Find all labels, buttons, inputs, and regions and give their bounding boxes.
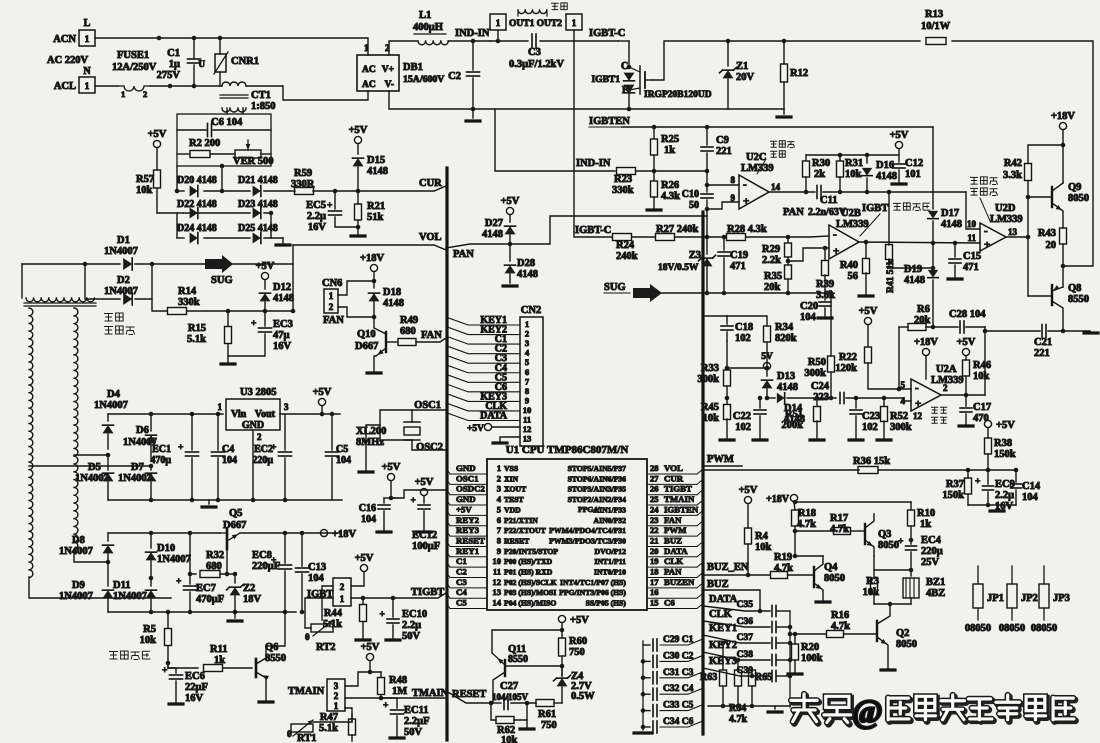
svg-text:ACN: ACN <box>53 34 76 45</box>
svg-text:OUT1: OUT1 <box>509 19 535 29</box>
power +5V logic <box>387 473 394 480</box>
svg-text:D4: D4 <box>107 389 121 400</box>
IC DB1 bridge rectifier <box>357 55 399 91</box>
svg-text:+18V: +18V <box>914 337 938 348</box>
svg-text:OSDC2: OSDC2 <box>456 484 485 494</box>
svg-text:U2C: U2C <box>746 152 766 163</box>
svg-text:BUZ: BUZ <box>707 579 729 590</box>
svg-text:3.3k: 3.3k <box>1003 170 1022 181</box>
svg-text:IND-IN: IND-IN <box>455 28 490 39</box>
svg-text:680: 680 <box>400 326 416 337</box>
svg-text:U2B: U2B <box>841 208 861 219</box>
svg-text:14: 14 <box>771 182 781 192</box>
wire U2C output <box>769 191 815 193</box>
wire c18 r34 join <box>726 341 728 368</box>
svg-text:102: 102 <box>735 422 751 433</box>
svg-text:C9: C9 <box>716 135 729 146</box>
svg-text:1: 1 <box>85 34 90 44</box>
power +5V r38 <box>984 420 991 427</box>
svg-text:C19: C19 <box>730 250 748 261</box>
wire u2a out <box>941 394 985 396</box>
svg-text:25V: 25V <box>921 557 940 568</box>
wire key resistor rail <box>708 705 790 707</box>
svg-text:REY1: REY1 <box>456 546 479 556</box>
svg-text:23: 23 <box>650 515 659 525</box>
svg-text:C24: C24 <box>811 381 830 392</box>
svg-text:C33 C5: C33 C5 <box>663 701 694 711</box>
capacitor C34 <box>641 725 646 730</box>
svg-text:Vin: Vin <box>231 409 247 420</box>
ground under EC5 R21 <box>357 227 359 234</box>
svg-text:22: 22 <box>650 525 659 535</box>
svg-text:10k: 10k <box>973 371 990 382</box>
svg-text:AC: AC <box>362 80 376 90</box>
svg-text:104/105V: 104/105V <box>492 692 529 702</box>
svg-text:10k: 10k <box>845 169 862 180</box>
svg-text:1: 1 <box>525 319 529 329</box>
node SUG arrow left <box>152 263 205 265</box>
svg-text:C16: C16 <box>359 503 376 514</box>
svg-text:16: 16 <box>650 587 659 597</box>
svg-text:104: 104 <box>800 312 817 323</box>
svg-text:+5V: +5V <box>355 553 374 564</box>
svg-text:θ: θ <box>305 632 310 642</box>
svg-text:200k: 200k <box>781 420 803 431</box>
svg-text:100μF: 100μF <box>412 541 440 552</box>
svg-text:AC 220V: AC 220V <box>47 55 89 66</box>
svg-text:1μ: 1μ <box>169 59 180 70</box>
svg-text:4148: 4148 <box>777 382 798 393</box>
svg-text:Z1: Z1 <box>736 61 748 72</box>
svg-text:+: + <box>411 496 416 506</box>
svg-text:+: + <box>271 556 276 566</box>
svg-text:4.7k: 4.7k <box>729 714 748 725</box>
svg-text:1N4007: 1N4007 <box>118 473 152 484</box>
svg-text:D16: D16 <box>876 160 894 171</box>
svg-text:+: + <box>975 477 980 487</box>
svg-text:0.5W: 0.5W <box>571 691 595 702</box>
svg-text:12: 12 <box>913 411 923 421</box>
svg-text:2.2μF: 2.2μF <box>404 716 430 727</box>
svg-text:R45: R45 <box>701 402 719 413</box>
svg-text:8550: 8550 <box>508 654 528 665</box>
ground DC- <box>472 109 474 118</box>
svg-text:D21 4148: D21 4148 <box>238 175 278 186</box>
svg-text:1N4007: 1N4007 <box>59 546 93 557</box>
svg-text:C20: C20 <box>800 301 818 312</box>
svg-text:R43: R43 <box>1038 228 1056 239</box>
svg-text:+: + <box>271 443 276 453</box>
svg-text:+5V: +5V <box>256 261 275 272</box>
svg-text:10k: 10k <box>755 542 772 553</box>
svg-text:R63: R63 <box>700 672 717 683</box>
svg-text:RT1: RT1 <box>297 733 316 743</box>
svg-text:Q3: Q3 <box>878 529 891 540</box>
svg-text:20k: 20k <box>914 315 931 326</box>
svg-text:LM339: LM339 <box>990 214 1023 225</box>
svg-text:2: 2 <box>497 473 501 483</box>
svg-text:R41 51k: R41 51k <box>886 259 896 293</box>
svg-text:2.2k: 2.2k <box>762 255 781 266</box>
svg-text:VDD: VDD <box>504 505 521 514</box>
svg-text:SUG: SUG <box>604 282 626 293</box>
svg-text:+18V: +18V <box>332 529 356 540</box>
svg-text:C1: C1 <box>167 48 180 59</box>
svg-text:FAN: FAN <box>664 515 682 525</box>
svg-text:471: 471 <box>963 262 979 273</box>
svg-text:LM339: LM339 <box>836 219 869 230</box>
svg-text:OUT2: OUT2 <box>537 19 563 29</box>
svg-text:DB1: DB1 <box>403 62 423 73</box>
ground gate clamp <box>783 109 785 114</box>
svg-text:1k: 1k <box>664 145 675 156</box>
svg-text:C37: C37 <box>737 633 754 643</box>
svg-text:R38: R38 <box>994 438 1012 449</box>
svg-text:D5: D5 <box>88 462 101 473</box>
svg-text:2: 2 <box>329 302 334 312</box>
svg-text:Q4: Q4 <box>824 562 838 573</box>
svg-text:IGBTEN: IGBTEN <box>664 504 699 514</box>
svg-text:+18V: +18V <box>766 494 790 505</box>
wire ACL net <box>95 85 118 87</box>
svg-text:120k: 120k <box>835 363 857 374</box>
svg-text:R12: R12 <box>790 68 808 79</box>
svg-text:XL200: XL200 <box>356 426 386 437</box>
connector ACL terminal <box>79 77 95 93</box>
svg-text:INT0/P10: INT0/P10 <box>594 568 626 577</box>
svg-text:R32: R32 <box>206 550 224 561</box>
wire q11 feed <box>492 630 562 653</box>
ground under diode matrix <box>282 238 284 243</box>
svg-text:CT1: CT1 <box>251 90 271 101</box>
svg-text:L: L <box>84 18 91 29</box>
svg-text:102: 102 <box>735 333 751 344</box>
wire tmain +5v <box>370 661 381 672</box>
svg-text:+: + <box>380 610 385 620</box>
svg-text:10k: 10k <box>703 413 720 424</box>
svg-text:KEY1: KEY1 <box>709 623 737 634</box>
svg-text:50: 50 <box>689 200 699 211</box>
svg-text:R34: R34 <box>775 322 794 333</box>
svg-text:R22: R22 <box>839 352 857 363</box>
svg-text:AC: AC <box>362 65 376 75</box>
svg-text:EC10: EC10 <box>402 609 427 620</box>
svg-text:C10: C10 <box>682 189 699 200</box>
power +5V CN2 pin12 <box>484 423 491 430</box>
wire CN6 pin1 <box>338 281 374 295</box>
svg-text:+: + <box>383 701 388 711</box>
svg-text:+5V: +5V <box>148 129 167 140</box>
power +18V drive <box>1059 122 1066 129</box>
svg-text:3: 3 <box>284 402 289 412</box>
svg-text:P02 (HS)/SCLK: P02 (HS)/SCLK <box>504 578 557 587</box>
svg-text:11: 11 <box>523 415 531 425</box>
svg-text:+5V: +5V <box>957 337 976 348</box>
svg-text:R48: R48 <box>389 675 407 686</box>
label 驱动脉宽调整 <box>970 177 978 184</box>
svg-text:4BZ: 4BZ <box>926 588 945 599</box>
svg-text:56: 56 <box>848 271 859 282</box>
svg-text:4: 4 <box>525 348 530 358</box>
svg-text:R49: R49 <box>400 315 418 326</box>
svg-text:R37: R37 <box>946 479 964 490</box>
svg-text:D667: D667 <box>355 341 378 352</box>
wire PAN net <box>446 216 707 248</box>
connector OUT1 <box>490 14 506 30</box>
svg-text:R26: R26 <box>661 180 679 191</box>
svg-text:C11: C11 <box>820 195 838 206</box>
svg-text:JP1: JP1 <box>987 593 1004 604</box>
svg-text:D9: D9 <box>72 580 85 591</box>
svg-text:R46: R46 <box>973 360 991 371</box>
svg-text:1: 1 <box>218 402 223 412</box>
diode D15 <box>354 136 361 143</box>
svg-text:R21: R21 <box>367 201 385 212</box>
svg-text:6: 6 <box>525 367 530 377</box>
svg-text:50V: 50V <box>404 727 423 738</box>
svg-text:VOL: VOL <box>664 463 683 473</box>
svg-text:DATA: DATA <box>709 594 738 605</box>
svg-text:C6: C6 <box>664 598 675 608</box>
svg-text:R29: R29 <box>762 244 780 255</box>
svg-text:JP3: JP3 <box>1053 593 1070 604</box>
svg-text:4148: 4148 <box>367 166 388 177</box>
svg-text:11: 11 <box>493 567 501 577</box>
svg-text:300k: 300k <box>890 422 912 433</box>
svg-text:L1: L1 <box>419 10 431 21</box>
svg-text:470μ: 470μ <box>150 455 171 466</box>
svg-text:OSC1: OSC1 <box>414 400 441 411</box>
svg-text:51k: 51k <box>367 212 384 223</box>
svg-text:3: 3 <box>497 484 501 494</box>
svg-text:R11: R11 <box>210 644 228 655</box>
wire C29-C34 ground spine <box>642 641 644 730</box>
svg-text:1: 1 <box>121 89 125 99</box>
svg-text:2: 2 <box>143 89 147 99</box>
svg-text:1: 1 <box>572 18 577 28</box>
svg-text:PPG/INT3/P06 (HS): PPG/INT3/P06 (HS) <box>559 588 626 597</box>
svg-text:GND: GND <box>456 463 476 473</box>
svg-text:OSC1: OSC1 <box>456 473 479 483</box>
svg-text:8550: 8550 <box>265 653 286 664</box>
svg-text:10: 10 <box>492 556 501 566</box>
svg-text:R6: R6 <box>917 304 930 315</box>
svg-text:R57: R57 <box>136 174 154 185</box>
power +5V above D12 <box>261 272 268 279</box>
svg-text:1N4007: 1N4007 <box>113 591 147 602</box>
svg-text:+5V: +5V <box>456 504 472 514</box>
svg-text:Q6: Q6 <box>265 642 278 653</box>
svg-text:+5V: +5V <box>467 424 484 434</box>
svg-text:4148: 4148 <box>273 293 294 304</box>
power +18V fan <box>370 264 377 271</box>
svg-text:16V: 16V <box>185 693 204 704</box>
svg-text:470μF: 470μF <box>196 594 224 605</box>
connector OUT2 <box>566 14 582 30</box>
svg-text:8: 8 <box>497 535 502 545</box>
svg-text:4: 4 <box>497 494 502 504</box>
svg-text:R60: R60 <box>569 636 587 647</box>
svg-text:470: 470 <box>973 413 989 424</box>
svg-text:14: 14 <box>492 598 501 608</box>
svg-text:1N4007: 1N4007 <box>59 591 93 602</box>
svg-text:BUZEN: BUZEN <box>664 577 695 587</box>
svg-text:R23: R23 <box>614 174 632 185</box>
wire ACN net <box>95 38 368 55</box>
svg-text:EC3: EC3 <box>273 319 293 330</box>
svg-text:CLK: CLK <box>664 556 683 566</box>
svg-text:5: 5 <box>525 357 529 367</box>
capacitor C31 <box>641 676 646 681</box>
svg-text:IGBT: IGBT <box>862 203 888 214</box>
svg-text:GND: GND <box>456 494 476 504</box>
svg-text:CUR: CUR <box>664 473 684 483</box>
svg-text:20k: 20k <box>764 282 781 293</box>
svg-text:26: 26 <box>650 484 659 494</box>
svg-text:FAN: FAN <box>323 315 344 326</box>
potentiometer VER 500 <box>235 150 261 158</box>
svg-text:R14: R14 <box>178 286 197 297</box>
svg-text:R2 200: R2 200 <box>189 138 220 149</box>
svg-text:220μ: 220μ <box>921 546 943 557</box>
svg-text:STOP3/AIN3/P35: STOP3/AIN3/P35 <box>568 485 627 494</box>
wire winding taps <box>29 577 171 598</box>
svg-text:25: 25 <box>650 494 659 504</box>
svg-text:4148: 4148 <box>482 229 503 240</box>
power +5V buz <box>744 496 751 503</box>
svg-text:D8: D8 <box>72 535 85 546</box>
svg-text:C4: C4 <box>222 444 234 455</box>
svg-text:R31: R31 <box>845 158 863 169</box>
svg-text:300k: 300k <box>804 368 826 379</box>
svg-text:ACL: ACL <box>54 81 76 92</box>
svg-text:8050: 8050 <box>1068 193 1089 204</box>
svg-text:R59: R59 <box>294 168 312 179</box>
svg-text:C28 104: C28 104 <box>949 309 986 320</box>
svg-text:BUZ: BUZ <box>664 535 682 545</box>
ground key rail <box>774 706 776 709</box>
svg-text:+: + <box>251 319 256 329</box>
svg-text:1N4007: 1N4007 <box>75 473 109 484</box>
svg-text:C6 104: C6 104 <box>211 117 243 128</box>
svg-text:XIN: XIN <box>504 474 519 483</box>
svg-text:13: 13 <box>1008 227 1018 237</box>
svg-text:1: 1 <box>364 43 369 53</box>
svg-text:2.2μ: 2.2μ <box>307 211 326 222</box>
svg-text:θ: θ <box>287 729 292 739</box>
svg-text:R36 15k: R36 15k <box>853 456 890 467</box>
svg-text:INT1/P11: INT1/P11 <box>594 557 626 566</box>
svg-text:R65: R65 <box>755 672 772 683</box>
svg-text:STOP2/AIN2/P34: STOP2/AIN2/P34 <box>568 495 627 504</box>
svg-text:EC1: EC1 <box>152 444 171 455</box>
svg-text:U2A: U2A <box>936 364 957 375</box>
svg-text:17: 17 <box>650 577 659 587</box>
svg-text:TMAIN: TMAIN <box>412 688 449 699</box>
svg-text:D25 4148: D25 4148 <box>238 223 278 234</box>
svg-text:9: 9 <box>525 395 529 405</box>
svg-text:D18: D18 <box>383 287 401 298</box>
power +5V TMAIN <box>366 653 373 660</box>
svg-text:R35: R35 <box>764 271 782 282</box>
svg-text:IGBT-C: IGBT-C <box>589 28 625 39</box>
svg-text:V-: V- <box>385 80 394 90</box>
power +18V u2a <box>922 348 929 355</box>
svg-text:SS/P05 (HS): SS/P05 (HS) <box>586 599 627 608</box>
svg-text:REY2: REY2 <box>456 515 480 525</box>
block current-detect network box <box>177 114 271 166</box>
svg-text:08050: 08050 <box>999 623 1025 634</box>
svg-text:13: 13 <box>492 587 501 597</box>
svg-text:820k: 820k <box>775 333 797 344</box>
wire DC- rail <box>389 91 784 109</box>
svg-text:8050: 8050 <box>824 573 845 584</box>
svg-text:-: - <box>833 229 837 241</box>
svg-text:104: 104 <box>308 573 325 584</box>
svg-text:Q8: Q8 <box>1068 283 1081 294</box>
svg-text:+5V: +5V <box>501 196 520 207</box>
svg-text:Vout: Vout <box>255 409 276 420</box>
ground pwm filter <box>996 505 998 509</box>
svg-text:PAN: PAN <box>783 207 804 218</box>
svg-text:8050: 8050 <box>896 639 917 650</box>
svg-text:7: 7 <box>497 525 502 535</box>
svg-text:P03 (HS)/MOSI: P03 (HS)/MOSI <box>504 588 556 597</box>
svg-text:12: 12 <box>523 424 532 434</box>
transformer T1 primary <box>21 264 23 298</box>
power 5V d13 <box>763 362 770 369</box>
svg-text:+5V: +5V <box>361 642 380 653</box>
svg-text:Z2: Z2 <box>243 583 255 594</box>
svg-text:4148: 4148 <box>517 269 538 280</box>
svg-text:47μ: 47μ <box>273 330 290 341</box>
svg-text:4.7k: 4.7k <box>797 519 816 530</box>
svg-text:150k: 150k <box>994 449 1016 460</box>
svg-text:104: 104 <box>361 514 376 525</box>
svg-text:+18V: +18V <box>1051 111 1075 122</box>
svg-text:REY3: REY3 <box>456 525 480 535</box>
svg-text:C31 C3: C31 C3 <box>663 668 694 678</box>
svg-text:R15: R15 <box>188 323 206 334</box>
svg-text:C32 C4: C32 C4 <box>663 684 694 694</box>
svg-text:C21: C21 <box>1034 337 1052 348</box>
power +5V pan clamp <box>506 207 513 214</box>
svg-text:4148: 4148 <box>941 219 962 230</box>
svg-text:N: N <box>83 66 91 77</box>
svg-text:7: 7 <box>525 376 530 386</box>
svg-text:08050: 08050 <box>965 623 991 634</box>
svg-text:PWM3/PDO3/TC3/P30: PWM3/PDO3/TC3/P30 <box>549 536 626 545</box>
svg-text:4148: 4148 <box>876 171 897 182</box>
svg-text:D2: D2 <box>117 275 130 286</box>
svg-text:Q10: Q10 <box>357 329 376 340</box>
wire DC+ rail <box>389 41 417 55</box>
wire IND-IN sample <box>495 109 615 171</box>
power +5V IGBT sense <box>360 564 367 571</box>
svg-text:220μ: 220μ <box>252 455 273 466</box>
svg-text:2: 2 <box>340 582 345 592</box>
ground under R15 <box>221 362 235 365</box>
svg-text:2.2μ: 2.2μ <box>402 620 421 631</box>
svg-text:EC5: EC5 <box>306 200 326 211</box>
label 换流保护 <box>931 407 938 413</box>
svg-text:C2: C2 <box>456 567 467 577</box>
transformer T1 secondary winding B <box>74 308 78 550</box>
svg-text:RESET: RESET <box>456 535 485 545</box>
svg-text:2.2μ: 2.2μ <box>995 490 1014 501</box>
svg-text:+: + <box>176 577 181 587</box>
svg-text:IGBT1: IGBT1 <box>591 75 620 85</box>
